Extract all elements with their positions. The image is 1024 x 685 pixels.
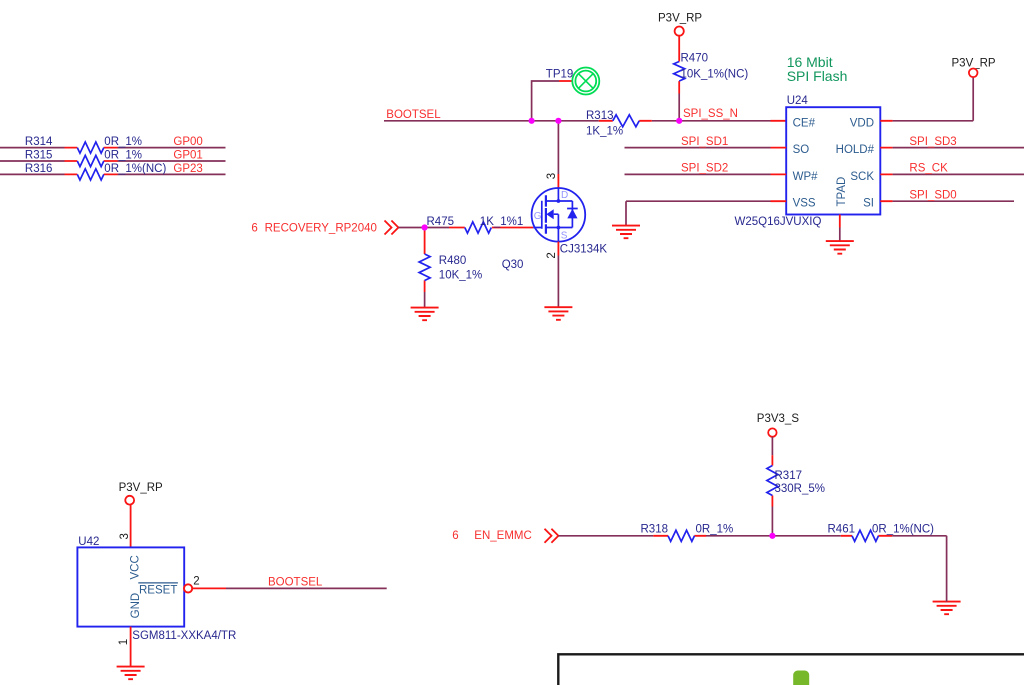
svg-text:P3V_RP: P3V_RP xyxy=(658,13,702,25)
svg-text:SCK: SCK xyxy=(850,171,874,183)
svg-text:R470: R470 xyxy=(681,53,709,65)
svg-text:W25Q16JVUXIQ: W25Q16JVUXIQ xyxy=(735,216,822,228)
svg-text:WP#: WP# xyxy=(793,171,819,183)
svg-text:SPI Flash: SPI Flash xyxy=(787,68,848,84)
svg-text:R315: R315 xyxy=(25,150,53,162)
svg-text:6: 6 xyxy=(251,223,257,235)
svg-text:CJ3134K: CJ3134K xyxy=(560,243,608,255)
svg-text:330R_5%: 330R_5% xyxy=(775,483,826,495)
svg-text:0R_1%(NC): 0R_1%(NC) xyxy=(104,163,166,175)
svg-text:BOOTSEL: BOOTSEL xyxy=(386,109,441,121)
svg-text:1: 1 xyxy=(118,639,130,645)
svg-text:TP19: TP19 xyxy=(546,69,574,81)
svg-text:R317: R317 xyxy=(775,470,803,482)
svg-text:VSS: VSS xyxy=(793,198,816,210)
svg-text:0R_1%: 0R_1% xyxy=(696,523,734,535)
svg-text:R314: R314 xyxy=(25,136,53,148)
svg-text:SGM811-XXKA4/TR: SGM811-XXKA4/TR xyxy=(132,630,236,642)
svg-text:R318: R318 xyxy=(641,523,669,535)
svg-text:TPAD: TPAD xyxy=(836,177,848,207)
svg-text:P3V3_S: P3V3_S xyxy=(757,413,800,425)
svg-text:GND: GND xyxy=(130,593,142,619)
svg-text:P3V_RP: P3V_RP xyxy=(119,482,163,494)
svg-text:BOOTSEL: BOOTSEL xyxy=(268,576,323,588)
svg-text:CE#: CE# xyxy=(793,117,816,129)
svg-text:10K_1%(NC): 10K_1%(NC) xyxy=(681,69,749,81)
svg-text:RECOVERY_RP2040: RECOVERY_RP2040 xyxy=(265,223,377,235)
svg-text:R316: R316 xyxy=(25,163,53,175)
svg-text:G: G xyxy=(534,211,542,222)
svg-text:VCC: VCC xyxy=(130,555,142,579)
svg-text:GP00: GP00 xyxy=(173,136,202,148)
svg-text:10K_1%: 10K_1% xyxy=(439,270,482,282)
svg-text:2: 2 xyxy=(193,576,199,588)
svg-text:R313: R313 xyxy=(586,110,614,122)
svg-text:0R_1%(NC): 0R_1%(NC) xyxy=(872,523,934,535)
svg-text:SPI_SD0: SPI_SD0 xyxy=(909,189,956,201)
svg-text:0R_1%: 0R_1% xyxy=(104,150,142,162)
svg-text:VDD: VDD xyxy=(850,117,874,129)
svg-text:S: S xyxy=(561,230,568,241)
svg-text:0R_1%: 0R_1% xyxy=(104,136,142,148)
svg-text:SPI_SD3: SPI_SD3 xyxy=(909,136,956,148)
svg-text:D: D xyxy=(561,190,568,201)
svg-text:3: 3 xyxy=(119,533,131,539)
svg-text:6: 6 xyxy=(452,530,458,542)
svg-text:R480: R480 xyxy=(439,255,467,267)
svg-text:SI: SI xyxy=(863,198,874,210)
svg-text:1K_1%1: 1K_1%1 xyxy=(480,216,523,228)
svg-text:SPI_SD1: SPI_SD1 xyxy=(681,136,728,148)
svg-text:GP23: GP23 xyxy=(173,163,202,175)
svg-text:GP01: GP01 xyxy=(173,150,202,162)
svg-text:U42: U42 xyxy=(78,536,99,548)
svg-text:2: 2 xyxy=(546,252,558,258)
svg-text:1K_1%: 1K_1% xyxy=(586,125,623,137)
svg-text:SO: SO xyxy=(793,144,810,156)
svg-text:HOLD#: HOLD# xyxy=(836,144,875,156)
svg-text:Q30: Q30 xyxy=(502,259,524,271)
svg-text:R475: R475 xyxy=(427,216,455,228)
svg-text:R461: R461 xyxy=(828,523,856,535)
svg-text:EN_EMMC: EN_EMMC xyxy=(474,530,532,542)
svg-text:SPI_SS_N: SPI_SS_N xyxy=(683,108,738,120)
svg-text:3: 3 xyxy=(546,173,558,179)
svg-text:RS_CK: RS_CK xyxy=(909,163,948,175)
svg-text:SPI_SD2: SPI_SD2 xyxy=(681,163,728,175)
svg-text:U24: U24 xyxy=(787,95,809,107)
svg-text:RESET: RESET xyxy=(139,584,177,596)
